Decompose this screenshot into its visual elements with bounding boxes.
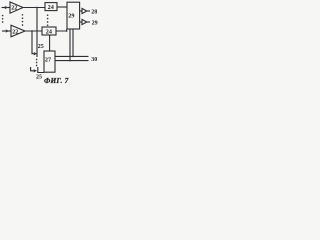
svg-text:22: 22 bbox=[11, 6, 17, 12]
node junction x70 bbox=[69, 60, 71, 62]
wire output 2 bbox=[87, 21, 90, 23]
wire chN stub elbow bbox=[31, 67, 34, 71]
svg-text:30: 30 bbox=[91, 57, 97, 63]
wire box24b down to box27 bbox=[49, 35, 51, 51]
wire chN segment into box27 bbox=[38, 67, 44, 73]
box 29 bbox=[67, 2, 80, 29]
svg-text:24: 24 bbox=[48, 4, 54, 11]
wire input 1 bbox=[2, 7, 11, 9]
svg-text:29: 29 bbox=[68, 13, 74, 20]
node junction at box29 corner bbox=[66, 30, 68, 32]
wire vertical box29 to bus line B bbox=[69, 29, 71, 61]
wire ch2 vertical drop with elbow bbox=[32, 31, 35, 54]
svg-text:29: 29 bbox=[92, 21, 98, 27]
node junction x73 bbox=[72, 56, 74, 58]
wire vertical box29 to bus line A bbox=[72, 29, 74, 56]
ellipsis mid bbox=[47, 14, 49, 26]
arrowhead input 1 bbox=[5, 6, 8, 9]
wire amp22b to box 24b bbox=[25, 30, 42, 32]
op-amp 22 channel 1 bbox=[10, 2, 23, 13]
wire input 2 bbox=[2, 30, 11, 32]
wire amp22 to box 24a bbox=[23, 7, 45, 9]
wire box24a to box29 bbox=[57, 6, 67, 8]
box 24b bbox=[42, 27, 56, 35]
wire bus line B bbox=[55, 60, 89, 62]
ellipsis channel line bbox=[36, 59, 38, 67]
svg-text:22: 22 bbox=[12, 29, 18, 35]
node junction ch2 drop bbox=[31, 30, 33, 32]
wire stub output 1 bbox=[80, 10, 82, 12]
op-amp 22 channel 2 bbox=[11, 25, 25, 37]
wire stub output 2 bbox=[80, 21, 82, 23]
box 27 bbox=[44, 51, 55, 72]
svg-text:ФИГ. 7: ФИГ. 7 bbox=[44, 76, 69, 85]
wire box24b to box29 corner bbox=[56, 29, 67, 31]
ellipsis left inputs bbox=[2, 15, 4, 23]
svg-text:28: 28 bbox=[91, 10, 97, 16]
svg-text:25: 25 bbox=[36, 74, 42, 80]
wire ch1 vertical drop bbox=[36, 8, 38, 58]
svg-text:24: 24 bbox=[46, 29, 52, 36]
box 24a bbox=[45, 3, 57, 11]
arrowhead element 25 top bbox=[34, 52, 37, 55]
wire bus line A bbox=[55, 55, 89, 57]
buffer triangle output 2 bbox=[82, 19, 87, 24]
arrowhead element 25 bottom bbox=[34, 69, 37, 72]
svg-text:27: 27 bbox=[45, 57, 51, 64]
svg-text:25: 25 bbox=[38, 44, 44, 50]
ellipsis mid-left bbox=[22, 14, 24, 26]
node junction ch1 drop bbox=[36, 7, 38, 9]
wire output 1 bbox=[87, 10, 90, 12]
arrowhead input 2 bbox=[6, 29, 9, 32]
buffer triangle output 1 bbox=[82, 8, 87, 13]
